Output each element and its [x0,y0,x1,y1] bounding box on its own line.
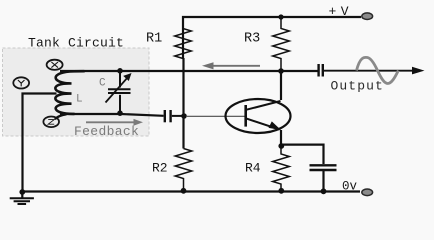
node ground junction [19,189,25,195]
svg-text:Feedback: Feedback [74,124,139,139]
capacitor emitter bypass [310,165,337,191]
node bypass cap bottom junction [321,188,327,194]
resistor R2 [175,149,192,191]
inductor L coil [55,71,84,114]
arrow current direction (left) [202,62,260,69]
wire main bus [60,70,318,72]
resistor R4 [273,146,290,191]
wire emitter to bypass cap [281,145,323,164]
node X terminal [47,60,63,70]
svg-text:R4: R4 [245,161,261,176]
wire collector to bus [280,71,282,100]
svg-text:Output: Output [331,79,384,94]
svg-text:0v: 0v [342,180,358,194]
node base junction [181,113,187,119]
capacitor output coupling [319,64,323,77]
resistor R1 [175,29,192,59]
terminal 0v dot [362,189,373,196]
capacitor C variable (tank) [106,71,131,114]
wire bottom rail [22,190,360,192]
node var cap bottom junction [117,110,123,116]
svg-text:R1: R1 [146,32,162,47]
node Z terminal [43,117,59,128]
wire output [324,70,413,72]
wire base [186,115,245,117]
node R4 bottom junction [278,188,284,194]
arrow feedback (right) [86,119,143,126]
wire R1 vertical (bus to R2) [182,58,184,149]
tank circuit shaded box [3,48,150,136]
node var cap top junction [117,68,123,74]
wire Y tap to ground [23,94,57,192]
svg-text:+V: +V [329,4,354,19]
resistor R3 [273,17,290,72]
svg-text:R2: R2 [152,161,168,176]
wire top rail [183,17,361,58]
terminal +V dot [362,13,373,20]
svg-text:Tank Circuit: Tank Circuit [28,36,124,51]
wire coil bottom to Z [56,114,67,118]
node Y terminal [13,77,29,88]
sine wave output symbol [357,57,399,83]
svg-text:C: C [99,78,106,90]
capacitor feedback coupling [165,110,184,122]
transistor Q1 [226,99,291,133]
node R3 top junction [278,14,283,19]
svg-text:R3: R3 [244,32,260,47]
node R2 bottom junction [181,188,187,194]
ground [10,192,34,204]
node bus/R3 junction [278,68,284,74]
node emitter junction [278,143,284,149]
wire tank bottom [60,114,164,116]
svg-text:L: L [76,94,83,106]
wire emitter down [280,130,282,147]
